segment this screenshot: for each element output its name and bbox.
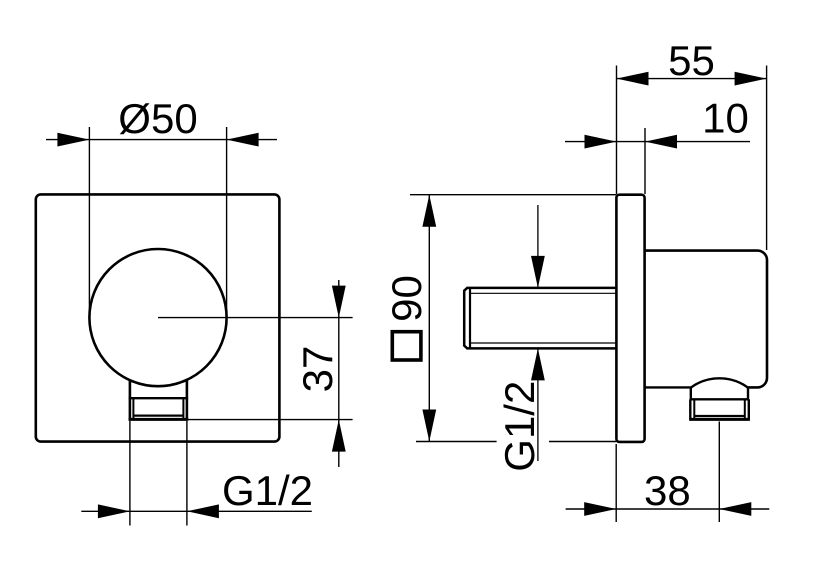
pipe thread relief line [469, 288, 471, 349]
dimension square 90 arrows [422, 195, 436, 227]
dimension 37 arrows [332, 286, 346, 318]
front view handle circle [89, 249, 226, 386]
dimension 38 arrows [584, 502, 616, 516]
square symbol [392, 332, 421, 360]
dimension 38 line [566, 508, 770, 510]
svg-text:G1/2: G1/2 [222, 467, 313, 514]
dimension G1/2 front arrows [98, 504, 130, 518]
dimension G1/2 front line [81, 510, 311, 512]
extension line outlet bottom [188, 419, 353, 421]
svg-text:G1/2: G1/2 [496, 381, 543, 472]
dimension G1/2 side line upper [537, 205, 539, 288]
centre line of circle [158, 317, 353, 319]
dimension D50 extension lines [89, 127, 226, 318]
dimension square 90 extension lines [410, 195, 616, 442]
side view wall plate [616, 195, 644, 442]
dimension 10 arrows [585, 135, 617, 149]
dimension 10 extension line [644, 128, 646, 194]
dimension 10 line [565, 141, 750, 143]
svg-text:38: 38 [644, 467, 691, 514]
side view threaded pipe [464, 288, 616, 349]
dimension 55 arrows [617, 72, 649, 86]
dimension 55 extension lines [617, 66, 767, 251]
side view body [645, 251, 767, 388]
dimension 55 line [617, 78, 767, 80]
dimension 37 line [338, 280, 340, 467]
side view outlet nut [689, 387, 750, 419]
dimension G1/2 side arrows [531, 256, 545, 288]
dimension D50 arrows [57, 133, 89, 147]
side view body bottom left edge [645, 386, 691, 388]
front view outlet nut [129, 380, 189, 420]
svg-text:90: 90 [383, 275, 430, 322]
front view wall plate [36, 194, 280, 441]
svg-text:Ø50: Ø50 [118, 95, 197, 142]
side view outlet dome [691, 378, 748, 387]
dimension D50 line [46, 139, 277, 141]
pipe thread core lines [470, 292, 617, 294]
dimension G1/2 side line lower [537, 348, 539, 461]
svg-text:55: 55 [668, 37, 715, 84]
dimension 38 extension lines [616, 422, 719, 523]
svg-text:37: 37 [294, 346, 341, 393]
dimension G1/2 front extension lines [130, 421, 187, 526]
dimension square 90 line [428, 195, 430, 442]
svg-text:10: 10 [702, 95, 749, 142]
